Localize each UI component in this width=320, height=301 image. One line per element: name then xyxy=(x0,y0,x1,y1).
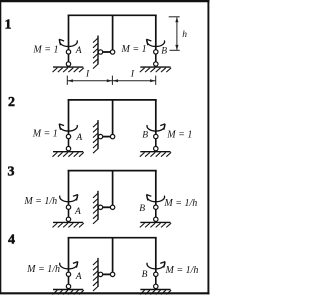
frame 3: left column xyxy=(68,171,70,205)
frame 1: middle column xyxy=(112,15,114,50)
svg-text:B: B xyxy=(161,46,167,56)
frame 2: middle column xyxy=(112,100,114,134)
svg-text:M = 1/h: M = 1/h xyxy=(26,264,60,275)
moment arrow at A fig4 (cw) xyxy=(60,262,78,269)
svg-text:M = 1: M = 1 xyxy=(32,128,58,139)
support A fig4 xyxy=(53,272,84,294)
svg-text:M = 1: M = 1 xyxy=(166,130,192,141)
middle support fig2 xyxy=(93,120,115,153)
support A fig2 xyxy=(53,134,84,156)
svg-text:B: B xyxy=(139,204,145,214)
moment arrow at B fig3 (ccw) xyxy=(146,195,164,202)
moment arrow at A fig3 (cw) xyxy=(60,195,78,202)
middle support fig4 xyxy=(93,258,115,291)
support A fig1 xyxy=(53,50,84,72)
svg-text:A: A xyxy=(74,207,81,217)
svg-text:B: B xyxy=(142,270,148,280)
page border xyxy=(0,0,210,2)
svg-text:M = 1: M = 1 xyxy=(121,44,147,55)
frame 2: beam xyxy=(68,99,157,101)
frame 4: beam xyxy=(68,237,157,239)
svg-text:A: A xyxy=(75,46,82,56)
frame 2: right column xyxy=(155,100,157,134)
svg-text:M = 1/h: M = 1/h xyxy=(23,196,57,207)
support A fig3 xyxy=(53,205,84,227)
moment arrow at B fig1 (ccw) xyxy=(146,39,164,46)
frame 1: left column xyxy=(68,15,70,49)
svg-text:h: h xyxy=(182,30,187,40)
frame 2: left column xyxy=(68,100,70,134)
h dimension xyxy=(169,16,180,18)
moment arrow at B fig2 (cw) xyxy=(147,124,165,131)
middle support fig3 xyxy=(93,191,115,224)
frame 1: right column xyxy=(155,15,157,49)
svg-text:B: B xyxy=(142,131,148,141)
frame 3: beam xyxy=(68,170,157,172)
support B fig2 xyxy=(140,134,171,156)
support B fig1 xyxy=(140,50,171,72)
svg-text:1: 1 xyxy=(5,18,12,33)
moment arrow at A fig1 (ccw) xyxy=(59,39,77,46)
middle support fig1 xyxy=(93,36,115,69)
svg-text:4: 4 xyxy=(8,233,15,248)
frame 3: right column xyxy=(155,171,157,205)
support B fig4 xyxy=(140,272,171,294)
svg-text:A: A xyxy=(75,133,82,143)
svg-text:M = 1/h: M = 1/h xyxy=(163,198,197,209)
svg-text:A: A xyxy=(75,272,82,282)
frame 4: right column xyxy=(155,238,157,272)
svg-text:M = 1: M = 1 xyxy=(32,45,58,56)
frame 1: beam xyxy=(68,14,157,16)
l dimension line xyxy=(67,80,155,82)
svg-text:2: 2 xyxy=(8,95,15,110)
svg-text:I: I xyxy=(85,70,90,80)
frame 3: middle column xyxy=(112,171,114,206)
moment arrow at B fig4 (cw) xyxy=(147,262,165,269)
moment arrow at A fig2 (ccw) xyxy=(59,124,77,131)
frame 4: left column xyxy=(68,238,70,272)
frame 4: middle column xyxy=(112,238,114,273)
svg-text:I: I xyxy=(130,70,135,80)
svg-text:M = 1/h: M = 1/h xyxy=(165,265,199,276)
svg-text:3: 3 xyxy=(8,165,15,180)
support B fig3 xyxy=(140,205,171,227)
